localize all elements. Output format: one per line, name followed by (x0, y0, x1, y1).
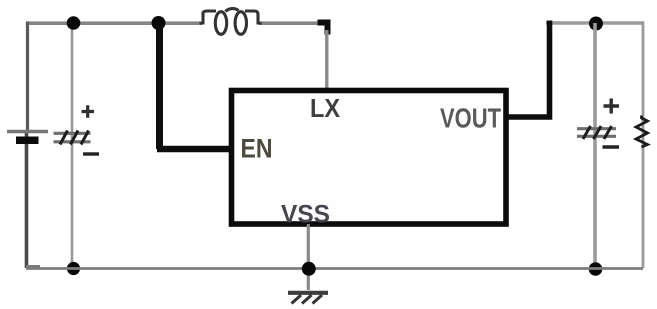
wire LX vertical (325, 30, 328, 90)
wire top rail right (546, 21, 644, 24)
battery B1 (7, 132, 48, 145)
wire top rail left (VIN net) (27, 21, 330, 25)
svg-text:EN: EN (241, 134, 273, 164)
resistor R1 (zigzag) (636, 116, 648, 148)
wire EN branch (thick) (157, 23, 231, 149)
inductor L1 (200, 9, 262, 35)
node junction EN branch top (152, 16, 166, 30)
ground (288, 293, 328, 304)
wire input cap branch (71, 23, 74, 268)
wire LX corner (black) (318, 23, 328, 35)
svg-text:LX: LX (310, 93, 341, 123)
wire output cap branch (593, 23, 597, 269)
node junction top-right (589, 17, 603, 31)
wire right rail (642, 22, 645, 269)
wire left rail (26, 22, 40, 269)
wire bottom rail (ground net) (26, 267, 643, 270)
capacitor C2 (output, polarized) (577, 99, 619, 148)
IC U1 (DC-DC converter, pins LX/EN/VSS/VOUT) (232, 91, 507, 229)
wire VSS branch (307, 224, 310, 290)
node junction bottom-right (589, 262, 603, 276)
node junction VSS/ground (302, 262, 316, 276)
svg-text:VSS: VSS (281, 201, 330, 229)
svg-text:VOUT: VOUT (440, 103, 501, 134)
wire VOUT (thick) (506, 21, 550, 118)
node VIN junction top-left (67, 16, 81, 30)
capacitor C1 (input, polarized) (54, 105, 100, 154)
node junction bottom-left (67, 262, 80, 275)
